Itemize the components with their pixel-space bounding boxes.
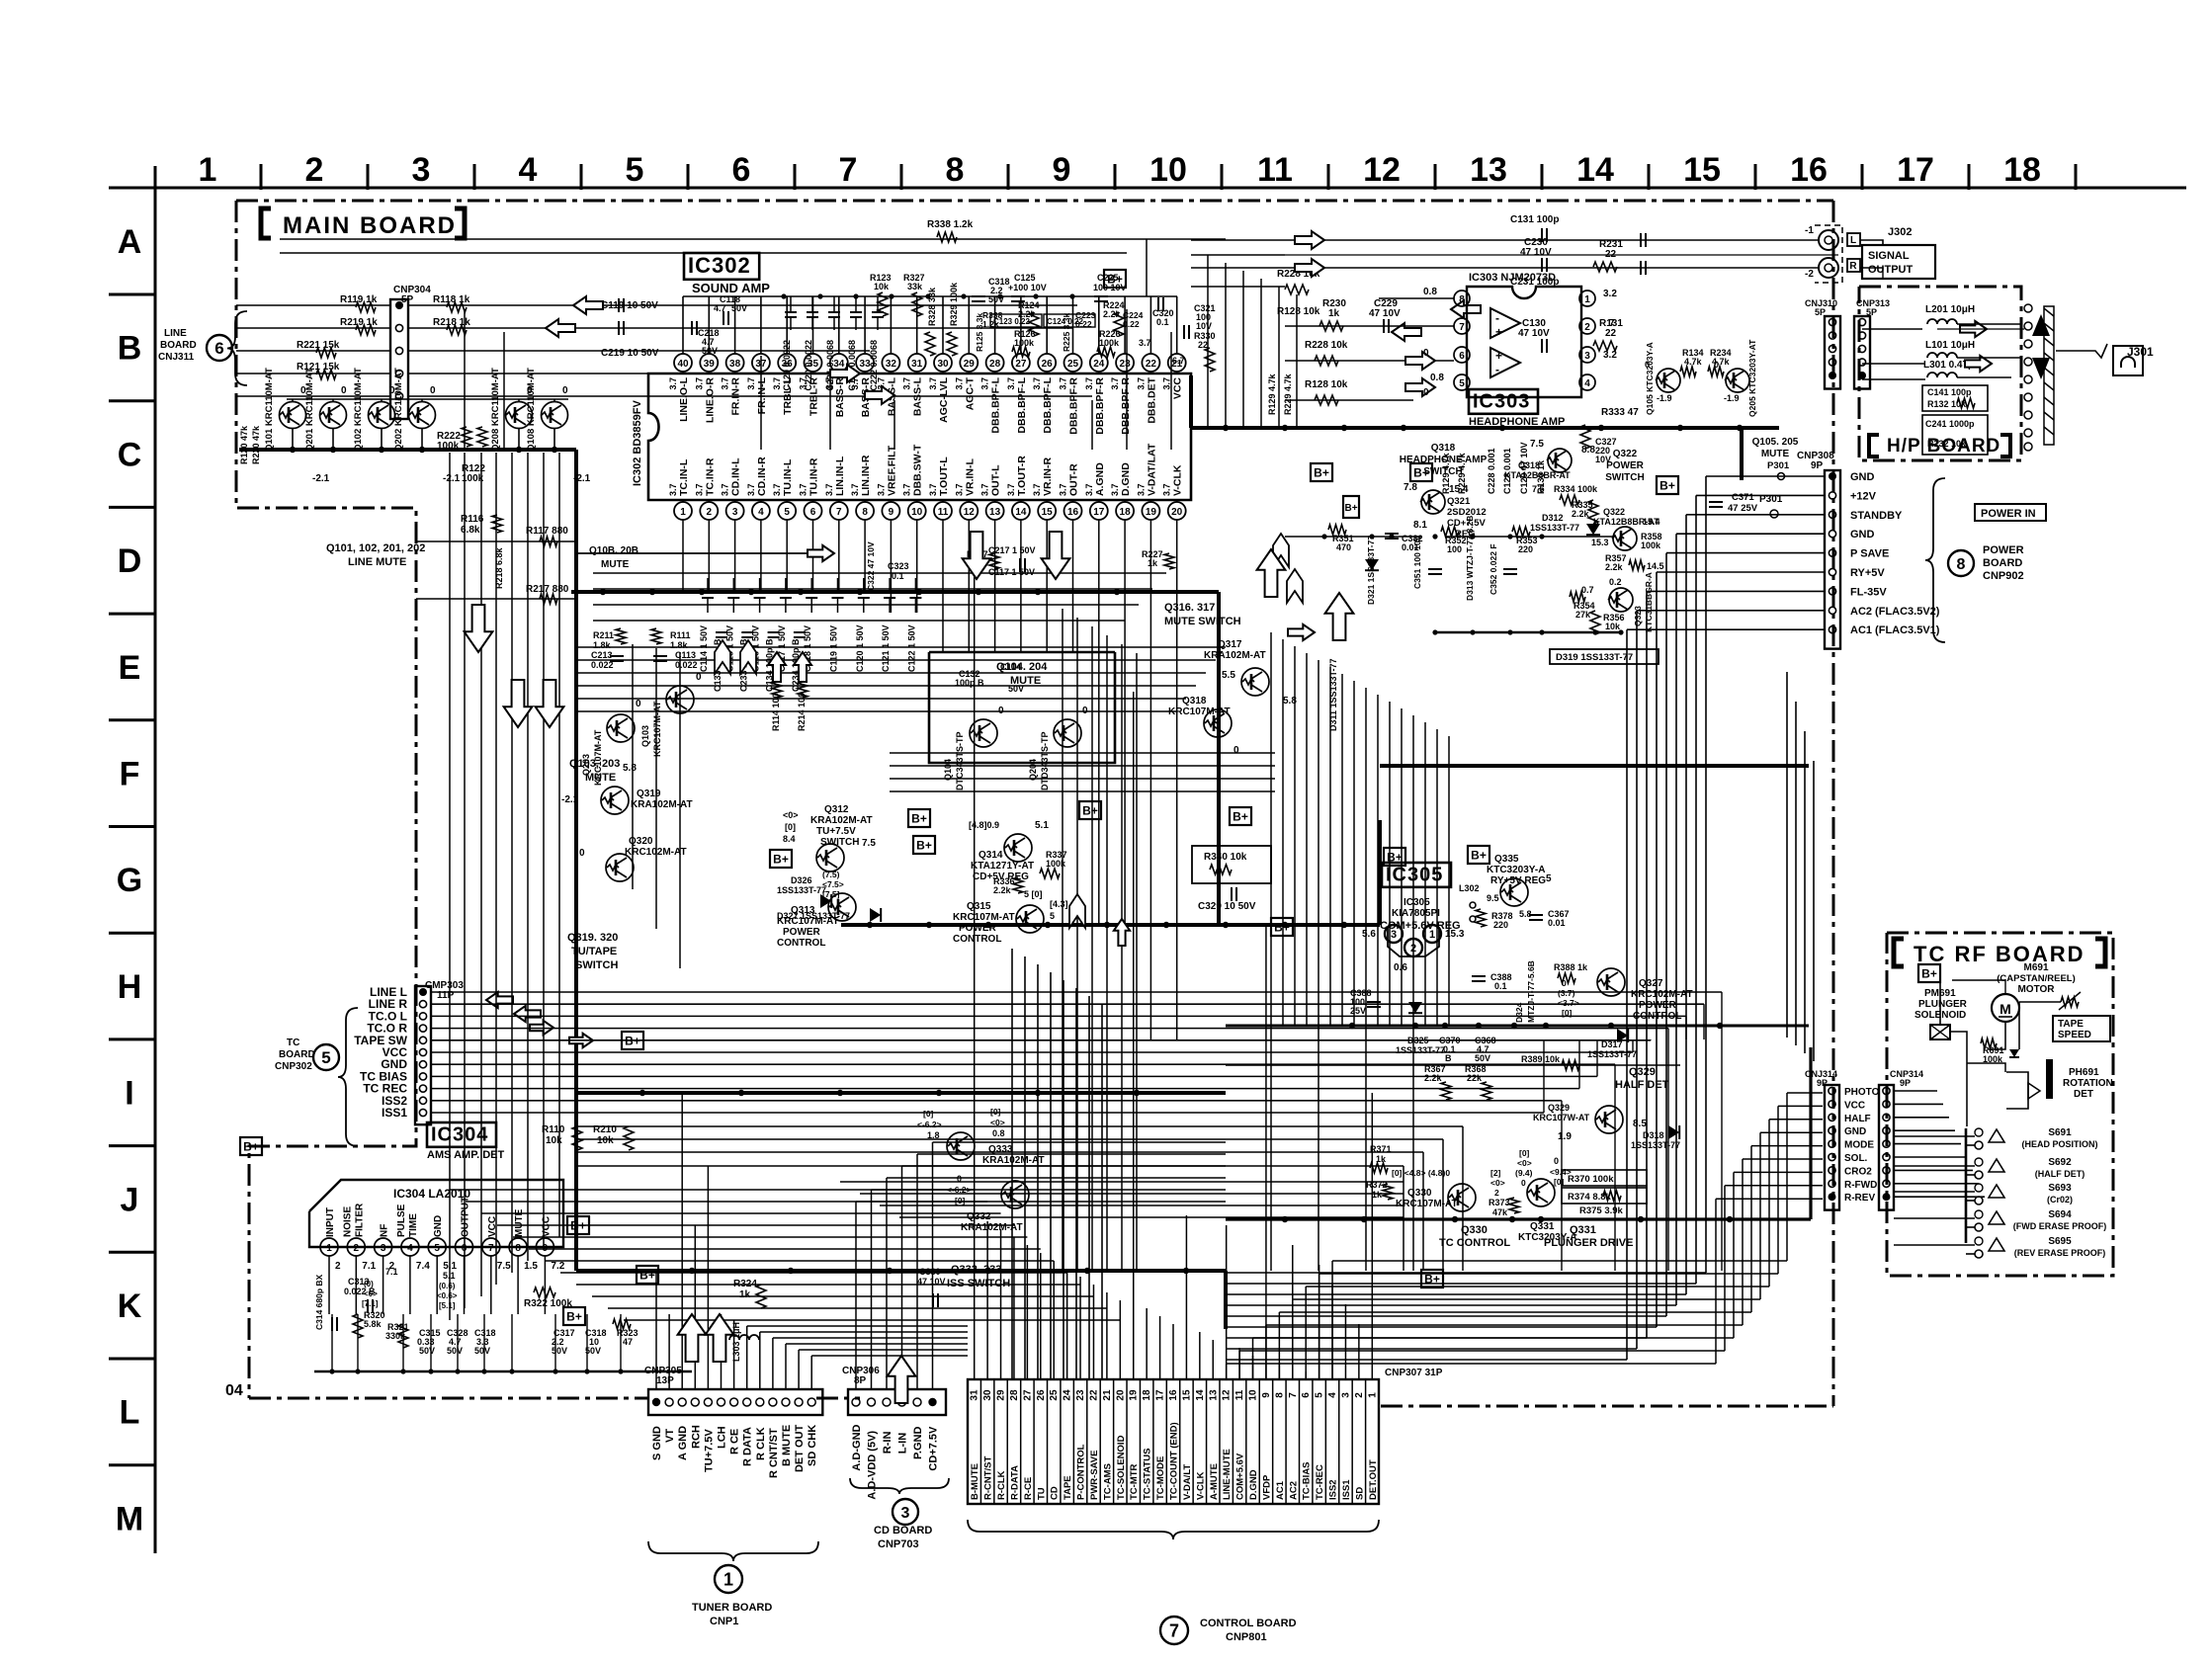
svg-text:1SS133T-77: 1SS133T-77 <box>1587 1049 1637 1059</box>
jack J302 output terminals <box>1819 230 1838 250</box>
svg-text:7: 7 <box>839 151 858 189</box>
svg-text:15: 15 <box>1683 151 1721 189</box>
svg-text:47: 47 <box>623 1337 633 1347</box>
svg-text:31: 31 <box>911 359 923 370</box>
svg-text:Q330: Q330 <box>1407 1188 1432 1199</box>
svg-text:POWER: POWER <box>783 927 821 938</box>
svg-text:C323: C323 <box>888 561 909 571</box>
svg-text:SWITCH: SWITCH <box>1423 466 1462 477</box>
mute box wires <box>929 652 1115 763</box>
svg-text:3.7: 3.7 <box>980 377 990 390</box>
svg-text:2.2k: 2.2k <box>1424 1073 1443 1083</box>
svg-text:18: 18 <box>1142 1389 1152 1401</box>
svg-text:10k: 10k <box>874 282 890 291</box>
svg-text:TIME: TIME <box>408 1213 419 1237</box>
svg-text:Q10B. 20B: Q10B. 20B <box>589 545 638 556</box>
svg-text:DBB.BPF-L: DBB.BPF-L <box>1016 376 1028 433</box>
svg-text:KTA12B8BR-AT: KTA12B8BR-AT <box>1504 470 1571 480</box>
svg-text:KRA102M-AT: KRA102M-AT <box>982 1155 1045 1166</box>
svg-text:AC1: AC1 <box>1275 1480 1286 1500</box>
svg-text:47 10V: 47 10V <box>1369 308 1401 319</box>
svg-text:DBB.BPF-L: DBB.BPF-L <box>990 376 1002 433</box>
svg-text:V-CLK: V-CLK <box>1172 464 1184 496</box>
svg-text:C125: C125 <box>1014 273 1036 283</box>
svg-text:LINE MUTE: LINE MUTE <box>348 556 406 568</box>
svg-text:-: - <box>1495 311 1499 325</box>
svg-text:3: 3 <box>1391 929 1397 941</box>
svg-text:VREF.FILT: VREF.FILT <box>886 445 897 496</box>
bplus power row <box>1311 463 1332 481</box>
svg-text:7: 7 <box>1169 1620 1179 1640</box>
capacitor C231 <box>1640 261 1642 275</box>
svg-text:(HEAD POSITION): (HEAD POSITION) <box>2021 1139 2097 1149</box>
svg-text:+100 10V: +100 10V <box>1008 283 1047 292</box>
svg-text:PLUNGER DRIVE: PLUNGER DRIVE <box>1544 1237 1633 1249</box>
black triangle up <box>2032 314 2050 336</box>
svg-text:C380: C380 <box>919 1267 941 1277</box>
svg-text:3.7: 3.7 <box>1162 377 1172 390</box>
IC303 pin 3 <box>1579 347 1595 363</box>
svg-text:5.8: 5.8 <box>1519 909 1532 919</box>
svg-text:1: 1 <box>680 507 686 518</box>
svg-text:(9.4): (9.4) <box>1515 1168 1533 1178</box>
wire thick power rail right <box>1380 764 1809 768</box>
svg-text:TAPE: TAPE <box>1063 1475 1073 1500</box>
svg-text:19: 19 <box>1146 507 1157 518</box>
svg-text:5 [0]: 5 [0] <box>1024 889 1043 899</box>
IC303 label box <box>1469 389 1538 414</box>
IC304 pin 6 <box>456 1238 473 1256</box>
svg-text:25: 25 <box>1067 359 1079 370</box>
svg-text:-2.1: -2.1 <box>312 473 330 484</box>
svg-text:Q102 KRC110M-AT: Q102 KRC110M-AT <box>353 368 364 452</box>
IC303 pin 8 <box>1454 291 1470 306</box>
svg-text:Q104. 204: Q104. 204 <box>996 661 1048 673</box>
svg-text:3.7: 3.7 <box>1084 377 1094 390</box>
arrow up bottom1 <box>678 1314 707 1362</box>
wire left vertical bundle <box>449 453 451 1320</box>
svg-text:COM+5.6V: COM+5.6V <box>1235 1453 1246 1500</box>
svg-text:1SS133T-77: 1SS133T-77 <box>1396 1045 1445 1055</box>
transistor Q312 TU+7.5V switch <box>816 844 844 872</box>
svg-text:R334 100k: R334 100k <box>1554 484 1598 494</box>
svg-text:0.6: 0.6 <box>1394 962 1407 973</box>
transistor Q335 RY+5V REG <box>1500 878 1528 906</box>
svg-text:IC302: IC302 <box>688 253 751 278</box>
svg-text:B+: B+ <box>1424 1273 1440 1287</box>
wires tc rf <box>1939 980 1941 1025</box>
svg-text:1k: 1k <box>739 1289 751 1300</box>
svg-text:6: 6 <box>1459 351 1465 362</box>
svg-text:30: 30 <box>982 1389 993 1401</box>
svg-text:[0] <4.8> (4.8)0: [0] <4.8> (4.8)0 <box>1392 1168 1450 1178</box>
transistor Q323 KTC31BBR-A <box>1608 588 1633 612</box>
svg-text:C220 0.0022: C220 0.0022 <box>804 340 813 391</box>
transistor Q330 TC CONTROL <box>1448 1184 1476 1211</box>
svg-text:27: 27 <box>1015 359 1027 370</box>
wire thick riser x1233 <box>1217 592 1221 925</box>
svg-text:15.4: 15.4 <box>1643 517 1660 527</box>
svg-text:CD.IN-L: CD.IN-L <box>730 457 742 496</box>
svg-text:10V: 10V <box>1196 321 1212 331</box>
transistor Q103 KRC107M-AT <box>666 686 694 713</box>
IC302 pin 25 <box>1064 354 1082 372</box>
svg-text:0.8: 0.8 <box>992 1128 1005 1138</box>
svg-text:1: 1 <box>326 1243 332 1254</box>
svg-text:8: 8 <box>1274 1392 1285 1398</box>
svg-text:R340 10k: R340 10k <box>1204 852 1247 863</box>
IC302 pin 13 <box>986 502 1004 520</box>
arrow hp 2 <box>1965 356 1992 372</box>
svg-text:3.7: 3.7 <box>1059 483 1068 496</box>
svg-text:1.5: 1.5 <box>524 1261 538 1272</box>
svg-text:ROTATION: ROTATION <box>2063 1078 2113 1089</box>
IC304 pin 8 <box>509 1238 527 1256</box>
switch S692 <box>1975 1158 1983 1166</box>
svg-text:P301: P301 <box>1767 460 1790 471</box>
svg-text:R220 47k: R220 47k <box>251 425 261 464</box>
IC304 pin 7 <box>482 1238 500 1256</box>
svg-text:C114 1 50V: C114 1 50V <box>699 625 709 672</box>
svg-text:POWER: POWER <box>1983 544 2024 556</box>
svg-text:Q319: Q319 <box>637 789 661 799</box>
svg-text:R120 47k: R120 47k <box>239 425 249 464</box>
svg-text:B+: B+ <box>1413 466 1429 480</box>
svg-text:(FWD ERASE PROOF): (FWD ERASE PROOF) <box>2013 1221 2107 1231</box>
svg-text:-2.1: -2.1 <box>561 794 579 805</box>
svg-text:R228 10k: R228 10k <box>1305 340 1348 351</box>
svg-text:BOARD: BOARD <box>160 340 197 351</box>
IC302 pin 28 <box>986 354 1004 372</box>
svg-text:B+: B+ <box>1471 849 1487 863</box>
arrow up c3 <box>1325 593 1354 640</box>
svg-text:Q323: Q323 <box>1633 606 1643 626</box>
svg-text:<0.6>: <0.6> <box>437 1291 458 1300</box>
tuner board circled 1 <box>715 1565 742 1593</box>
wires CNP314 into board <box>1894 1090 1937 1092</box>
svg-text:C123 0.22: C123 0.22 <box>993 317 1030 326</box>
top ruler ticks <box>260 164 263 190</box>
svg-text:4: 4 <box>407 1243 413 1254</box>
wire nested loops CNP307 to CNJ314 <box>1226 1364 1228 1379</box>
svg-text:J: J <box>121 1181 139 1218</box>
capacitor C123 C124 0.22 boxes <box>990 314 1042 327</box>
svg-text:7.5: 7.5 <box>497 1261 511 1272</box>
svg-text:Q105. 205: Q105. 205 <box>1752 437 1799 448</box>
IC303 pin 7 <box>1454 318 1470 334</box>
arrow tc1 <box>486 992 513 1008</box>
svg-text:TC-BIAS: TC-BIAS <box>1302 1461 1313 1500</box>
brace power <box>1925 478 1945 642</box>
svg-text:(HALF DET): (HALF DET) <box>2035 1169 2085 1179</box>
IC302 pin 33 <box>856 354 874 372</box>
IC302 pin 17 <box>1090 502 1108 520</box>
svg-text:Q319. 320: Q319. 320 <box>567 932 618 944</box>
svg-text:Q332. 333: Q332. 333 <box>951 1264 1001 1276</box>
svg-text:B MUTE: B MUTE <box>781 1425 793 1466</box>
svg-text:B+: B+ <box>1107 273 1123 287</box>
svg-text:4: 4 <box>519 151 538 189</box>
svg-text:CNP801: CNP801 <box>1226 1631 1267 1643</box>
IC302 pin 7 <box>830 502 848 520</box>
wire line board bus 3 <box>408 350 870 352</box>
svg-text:7.1: 7.1 <box>362 1261 376 1272</box>
svg-text:LINE.O-L: LINE.O-L <box>678 376 690 421</box>
svg-text:23: 23 <box>1120 359 1132 370</box>
svg-text:10: 10 <box>1149 151 1187 189</box>
wire thick bus y433 <box>1191 426 1779 430</box>
svg-text:0.7: 0.7 <box>1581 585 1594 595</box>
IC304 pin 9 <box>536 1238 553 1256</box>
wire thick bus y936 <box>841 923 1380 927</box>
transistor Q333 KRA102M-AT <box>947 1132 975 1160</box>
svg-text:3.7: 3.7 <box>902 377 912 390</box>
svg-text:[7.1]: [7.1] <box>362 1299 379 1308</box>
svg-text:B+: B+ <box>1082 804 1098 818</box>
svg-text:BOARD: BOARD <box>1983 557 2022 569</box>
svg-text:CD BOARD: CD BOARD <box>874 1525 932 1537</box>
svg-text:R128 10k: R128 10k <box>1277 306 1320 317</box>
svg-text:1SS133T-77: 1SS133T-77 <box>777 885 826 895</box>
wire line board bus 2 <box>408 327 1072 329</box>
IC302 pin 10 <box>908 502 926 520</box>
IC302 pin 38 <box>726 354 744 372</box>
capacitor C141 100p box <box>1922 385 1988 411</box>
svg-text:B+: B+ <box>1274 921 1290 935</box>
svg-text:3.7: 3.7 <box>876 483 886 496</box>
svg-text:V-DA/LT: V-DA/LT <box>1182 1464 1193 1500</box>
svg-text:1: 1 <box>199 151 217 189</box>
transistor Q320 KRC102M-AT <box>606 854 634 881</box>
svg-text:KTA1271Y-AT: KTA1271Y-AT <box>971 861 1034 872</box>
power in box label <box>1975 504 2046 521</box>
svg-text:(7.5): (7.5) <box>822 870 840 879</box>
svg-text:B: B <box>118 330 142 368</box>
svg-text:7.5: 7.5 <box>862 838 876 849</box>
svg-text:R232 10k: R232 10k <box>1927 439 1967 449</box>
wire rows F-G right bundle <box>890 752 1275 754</box>
svg-text:A: A <box>118 223 142 261</box>
brace tuner board <box>648 1541 818 1561</box>
wires H/P board <box>1862 328 1922 330</box>
svg-text:PLUNGER: PLUNGER <box>1918 999 1968 1010</box>
svg-text:9P: 9P <box>1900 1078 1911 1088</box>
brace cd board <box>850 1478 949 1494</box>
svg-text:47 10V: 47 10V <box>1520 247 1552 258</box>
svg-text:MODE: MODE <box>1844 1140 1874 1151</box>
svg-text:R: R <box>1849 261 1857 272</box>
junction dots y1286 bus <box>689 1268 695 1274</box>
IC302 pin 27 <box>1012 354 1030 372</box>
svg-text:ISS1: ISS1 <box>382 1106 407 1120</box>
svg-text:POWER IN: POWER IN <box>1981 508 2036 520</box>
svg-text:3.7: 3.7 <box>694 377 704 390</box>
svg-text:7.2: 7.2 <box>551 1261 564 1272</box>
svg-text:18: 18 <box>1120 507 1132 518</box>
svg-text:R371: R371 <box>1370 1144 1392 1154</box>
svg-text:A.GND: A.GND <box>1094 462 1106 496</box>
svg-text:04: 04 <box>225 1382 243 1399</box>
bplus labels center <box>1271 918 1293 936</box>
IC302 pin 1 <box>674 502 692 520</box>
svg-text:LIN.IN-L: LIN.IN-L <box>834 456 846 496</box>
svg-text:0: 0 <box>1423 387 1429 398</box>
svg-text:MUTE SWITCH: MUTE SWITCH <box>1164 616 1241 627</box>
svg-text:2: 2 <box>1584 322 1590 333</box>
IC302 pin 11 <box>934 502 952 520</box>
transistor Q203 KRC107M-AT <box>607 714 635 742</box>
svg-text:3.7: 3.7 <box>1006 483 1016 496</box>
svg-text:1k: 1k <box>1328 308 1340 319</box>
svg-text:L101 10μH: L101 10μH <box>1925 340 1975 351</box>
svg-text:FL-35V: FL-35V <box>1850 586 1887 598</box>
wire row-A long 2 <box>280 252 1127 254</box>
svg-text:C141 100p: C141 100p <box>1927 387 1972 397</box>
svg-text:4: 4 <box>1584 378 1590 389</box>
diode D319 box <box>1550 649 1659 664</box>
svg-text:SIGNAL: SIGNAL <box>1868 250 1910 262</box>
svg-text:R-CE: R-CE <box>1023 1477 1034 1500</box>
svg-text:Q318: Q318 <box>1431 443 1456 454</box>
svg-text:6: 6 <box>810 507 816 518</box>
svg-text:1SS133T-77: 1SS133T-77 <box>1631 1140 1680 1150</box>
wire row-A long 1 <box>280 238 1226 240</box>
svg-text:R328 33k: R328 33k <box>927 287 937 326</box>
svg-text:R-CNT/ST: R-CNT/ST <box>983 1455 994 1500</box>
svg-text:8: 8 <box>1459 294 1465 305</box>
svg-text:LCH: LCH <box>717 1426 728 1449</box>
svg-text:3: 3 <box>732 507 738 518</box>
svg-text:AMS AMP. DET: AMS AMP. DET <box>427 1149 505 1161</box>
svg-text:B+: B+ <box>1387 851 1403 865</box>
svg-text:1.9: 1.9 <box>1558 1131 1572 1142</box>
svg-text:220: 220 <box>1518 544 1533 554</box>
svg-text:NF: NF <box>380 1224 390 1237</box>
svg-text:<0>: <0> <box>1490 1178 1505 1188</box>
svg-text:KRC107M-AT: KRC107M-AT <box>1168 706 1231 717</box>
wire IC302 top bus <box>683 295 1177 297</box>
wires CNP302 out <box>431 991 1722 993</box>
wire upper horizontals rows E-F <box>577 646 1226 648</box>
svg-text:A GND: A GND <box>677 1426 689 1460</box>
svg-text:RY+5V: RY+5V <box>1850 567 1885 579</box>
svg-text:5.8k: 5.8k <box>364 1319 383 1329</box>
svg-text:GND: GND <box>1844 1126 1866 1137</box>
transistor Q322 KTA12B8BR-AT <box>1612 527 1637 550</box>
svg-text:Q322: Q322 <box>1613 449 1638 459</box>
svg-text:(0): (0) <box>364 1280 374 1288</box>
svg-text:4: 4 <box>758 507 764 518</box>
svg-text:-2.1: -2.1 <box>443 473 461 484</box>
wire bus CNP305 risers <box>655 1271 657 1389</box>
svg-text:LINE: LINE <box>164 328 187 339</box>
svg-text:D326: D326 <box>791 875 812 885</box>
svg-text:DTD343TS-TP: DTD343TS-TP <box>1040 731 1050 790</box>
IC302 pin 35 <box>805 354 822 372</box>
svg-text:I: I <box>125 1075 133 1113</box>
svg-text:[4.3]: [4.3] <box>1050 899 1068 909</box>
svg-text:7: 7 <box>1459 322 1465 333</box>
svg-text:TU.IN-R: TU.IN-R <box>808 457 820 496</box>
svg-text:47k: 47k <box>1492 1207 1508 1217</box>
svg-text:3.7: 3.7 <box>799 483 808 496</box>
arrow up c2 <box>1257 549 1286 597</box>
IC302 pin 2 <box>700 502 718 520</box>
svg-text:11: 11 <box>1257 151 1293 189</box>
op-amp IC304 body <box>309 1180 563 1247</box>
IC302 pin 14 <box>1012 502 1030 520</box>
svg-text:21: 21 <box>1102 1389 1113 1401</box>
svg-text:6: 6 <box>1301 1392 1312 1398</box>
svg-text:KRA102M-AT: KRA102M-AT <box>810 815 873 826</box>
svg-text:CNP307 31P: CNP307 31P <box>1385 1368 1443 1378</box>
svg-text:50V: 50V <box>419 1346 435 1356</box>
IC304 pin 1 <box>320 1238 338 1256</box>
svg-text:3.7: 3.7 <box>746 377 756 390</box>
arrow hp 1 <box>1960 321 1987 337</box>
left ruler ticks <box>109 293 155 296</box>
svg-text:22: 22 <box>1198 340 1208 350</box>
svg-text:22k: 22k <box>1467 1073 1483 1083</box>
svg-text:IC302 BD3859FV: IC302 BD3859FV <box>632 400 643 486</box>
svg-text:100k: 100k <box>1046 859 1066 869</box>
svg-text:C213: C213 <box>591 650 613 660</box>
svg-text:L201 10μH: L201 10μH <box>1925 304 1975 315</box>
chevron arrows center <box>1069 894 1085 928</box>
IC302 pin 19 <box>1142 502 1159 520</box>
IC302 pin 22 <box>1142 354 1159 372</box>
arrow right mid <box>808 545 834 561</box>
IC302 pin 37 <box>752 354 770 372</box>
H/P board dashed outline <box>1859 287 2021 460</box>
svg-text:50V: 50V <box>447 1346 463 1356</box>
svg-text:5: 5 <box>321 1048 330 1067</box>
svg-text:17: 17 <box>1897 151 1934 189</box>
svg-text:V-CLK: V-CLK <box>1195 1471 1206 1500</box>
arrow down 4 <box>963 532 991 579</box>
svg-text:5: 5 <box>1315 1392 1325 1398</box>
svg-text:DBB.BPF-R: DBB.BPF-R <box>1120 377 1132 435</box>
svg-text:0.22: 0.22 <box>1123 319 1140 329</box>
svg-text:5.5: 5.5 <box>1222 670 1235 681</box>
svg-text:+12V: +12V <box>1850 490 1877 502</box>
svg-text:SWITCH: SWITCH <box>820 837 859 848</box>
svg-text:12: 12 <box>1222 1389 1233 1401</box>
transistor Q321 CD+7.5V REG <box>1420 490 1445 514</box>
wire thick switch bus <box>1965 1128 1968 1243</box>
svg-text:-2: -2 <box>1805 269 1814 280</box>
wire r369 row <box>1226 1064 1680 1066</box>
transistor Q319 KRA102M-AT <box>601 787 629 814</box>
svg-text:R229 4.7k: R229 4.7k <box>1283 373 1293 415</box>
svg-text:10: 10 <box>1248 1389 1259 1401</box>
svg-text:R128 10k: R128 10k <box>1305 379 1348 390</box>
svg-text:0: 0 <box>562 385 568 396</box>
svg-text:17: 17 <box>1155 1389 1166 1401</box>
svg-text:B+: B+ <box>243 1140 259 1154</box>
svg-text:PH691: PH691 <box>2069 1067 2099 1078</box>
svg-text:1: 1 <box>1584 294 1590 305</box>
arrow tc3 <box>530 1021 553 1035</box>
svg-text:2.2k: 2.2k <box>1572 509 1590 519</box>
svg-text:26: 26 <box>1042 359 1054 370</box>
wire thick bus y1106 <box>577 1091 1226 1095</box>
svg-text:PULSE: PULSE <box>396 1204 407 1237</box>
svg-text:28: 28 <box>1009 1389 1020 1401</box>
wire line board bus 5 <box>408 395 1092 397</box>
IC305 label box <box>1382 863 1451 887</box>
svg-text:DET.OUT: DET.OUT <box>1368 1459 1379 1500</box>
